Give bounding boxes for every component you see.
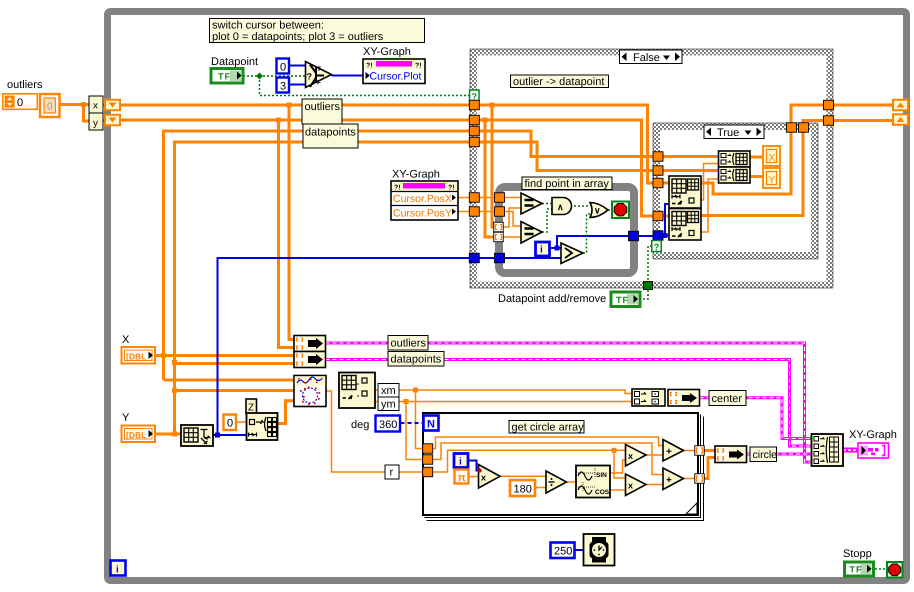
case structure False border — [470, 49, 833, 288]
wire T2 to build array B2 — [662, 169, 719, 172]
while loop condition terminal — [887, 562, 903, 578]
free label switch cursor — [210, 19, 425, 44]
i terminal for loop — [454, 454, 468, 468]
wire Y array net — [155, 433, 181, 436]
get circle array label — [509, 421, 584, 434]
outliers wire label — [302, 99, 342, 124]
svg-text:?: ? — [307, 72, 313, 82]
wire T3 to delete-from-array 1 — [656, 182, 669, 185]
wire 180 to divide — [535, 487, 546, 489]
unbundle x y node — [89, 96, 103, 130]
wire branch down to bundle input 1 — [289, 105, 294, 340]
wire delete2 array out to right shift register — [701, 121, 893, 216]
case structure True border — [653, 123, 818, 259]
Y array DBL control — [122, 426, 156, 443]
svg-text:get circle array: get circle array — [512, 422, 585, 434]
wire multiply0 out to divide — [500, 475, 546, 477]
svg-text:outlier -> datapoint: outlier -> datapoint — [513, 76, 604, 88]
svg-text:X: X — [769, 153, 776, 164]
divide node — [546, 471, 567, 493]
ym wire label — [378, 397, 399, 411]
svg-text:3: 3 — [280, 81, 286, 93]
outlier -> datapoint label — [511, 75, 609, 88]
svg-text:datapoints: datapoints — [391, 354, 442, 366]
svg-text:0: 0 — [17, 97, 23, 109]
250 constant — [551, 543, 575, 559]
svg-text:x: x — [93, 101, 98, 112]
X array DBL control — [122, 347, 156, 364]
svg-text:TF: TF — [850, 565, 863, 575]
svg-text:?!: ?! — [394, 185, 401, 192]
case selector terminal ? — [470, 90, 480, 102]
0 constant orange — [224, 415, 237, 431]
svg-text:X: X — [122, 334, 130, 346]
Stopp TF control — [845, 562, 874, 576]
svg-text:i: i — [116, 565, 119, 576]
wire autoindex I2 to equal 2 — [503, 236, 521, 238]
equal node 2 — [521, 222, 542, 244]
Datapoint add/remove TF — [611, 292, 640, 307]
wire ym inside for loop to add2 — [433, 443, 664, 475]
svg-text:XY-Graph: XY-Graph — [363, 46, 411, 58]
greater node — [561, 243, 583, 264]
wire R1 to circle bundle — [704, 449, 715, 452]
svg-text:XY-Graph: XY-Graph — [849, 429, 897, 441]
green diamond junction — [256, 73, 263, 80]
wire T1 to build array B1 — [662, 155, 719, 158]
svg-text:SIN: SIN — [596, 472, 607, 479]
svg-text:x: x — [481, 473, 486, 483]
wait ms node — [584, 534, 615, 566]
True case blue tunnel — [653, 231, 663, 241]
final build array node — [812, 434, 844, 466]
wire multiply2 out to add2 — [646, 484, 663, 486]
wire branch down to autoindex tunnel I1 — [492, 105, 495, 227]
gray loop tunnels G1 G2 — [495, 193, 505, 203]
wire cos out to multiply2 — [610, 489, 626, 491]
wire green dotted and to or — [574, 205, 590, 207]
svg-text:plot 0 = datapoints; plot 3 =: plot 0 = datapoints; plot 3 = outliers — [212, 31, 384, 43]
for loop left tunnels — [423, 444, 433, 454]
multiply node 1 — [626, 445, 647, 467]
wire branch down to autoindex tunnel I2 — [485, 120, 495, 237]
right shift register 1 — [893, 100, 908, 111]
svg-text:find point in array: find point in array — [525, 178, 610, 190]
center wire label — [709, 391, 746, 406]
wire X array net — [155, 354, 294, 357]
svg-text:switch cursor between:: switch cursor between: — [212, 20, 324, 32]
svg-text:Datapoint add/remove: Datapoint add/remove — [498, 293, 606, 305]
wire outliers control to unbundle — [60, 103, 89, 106]
wire ym — [375, 401, 632, 403]
svg-text:360: 360 — [379, 419, 397, 431]
wire outliers-x from left shift register to True case tunnel T3 — [120, 105, 662, 183]
svg-text:COS: COS — [595, 489, 610, 496]
True case left tunnels T1-T4 — [653, 152, 663, 162]
and node — [552, 198, 572, 215]
svg-text:outliers: outliers — [391, 338, 427, 350]
N terminal — [424, 416, 439, 431]
svg-text:xm: xm — [381, 385, 396, 397]
build array node B1 — [719, 151, 751, 167]
case tunnels PosX PosY — [469, 193, 479, 203]
wire blue to greater node — [504, 257, 561, 259]
svg-text:250: 250 — [554, 546, 572, 558]
svg-text:N: N — [427, 419, 435, 431]
wire blue 3 const to select — [289, 84, 309, 86]
wire xm — [375, 390, 632, 394]
wire add2 out to tunnel R2 — [683, 478, 695, 480]
wire magenta center cluster — [700, 398, 812, 439]
False case right tunnels — [824, 100, 834, 110]
svg-text:XY-Graph: XY-Graph — [392, 169, 440, 181]
svg-text:Z: Z — [248, 403, 254, 414]
wire delete1 array out to right shift register — [701, 105, 893, 194]
index & bundle node circle — [715, 446, 747, 463]
right shift register 2 — [893, 114, 908, 125]
r wire label — [385, 465, 399, 479]
svg-text:Cursor.Plot: Cursor.Plot — [370, 71, 422, 83]
svg-text:center: center — [712, 393, 743, 405]
svg-text:Y: Y — [769, 175, 776, 186]
wire blue array size net — [213, 434, 247, 436]
wire delete2 element out to B2 — [701, 179, 719, 232]
multiply node 2 — [626, 474, 647, 496]
svg-text:True: True — [717, 127, 739, 139]
for loop get circle array border — [423, 413, 704, 521]
Datapoint TF control — [211, 69, 243, 84]
wire 0 constant to init-array — [236, 421, 247, 423]
svg-text:?!: ?! — [415, 63, 422, 70]
initialize array node — [247, 413, 278, 440]
wire green dotted equal1 to and — [542, 203, 552, 205]
add node 1 — [663, 440, 684, 462]
svg-text:[DBL: [DBL — [126, 352, 146, 362]
svg-text:i: i — [459, 457, 462, 468]
svg-text:y: y — [93, 118, 98, 129]
wire B2 out to Y indicator — [750, 175, 763, 178]
wire R2 to circle bundle — [704, 458, 715, 479]
svg-text:TF: TF — [616, 295, 629, 305]
wire magenta outliers cluster to final build array — [326, 343, 812, 462]
wire blue i to greater — [549, 247, 561, 249]
outliers lower wire label — [388, 336, 428, 351]
svg-text:+: + — [666, 447, 672, 458]
red coercion dot — [478, 469, 482, 473]
equal node 1 — [521, 193, 542, 214]
wire add1 out to tunnel R1 — [683, 450, 695, 452]
wire green dotted Stopp TF to loop condition — [875, 568, 887, 570]
wire blue i to multiply0 — [468, 461, 479, 471]
gray loop blue tunnels — [495, 253, 505, 263]
svg-text:+: + — [666, 475, 672, 486]
left shift register 1 — [105, 100, 120, 111]
svg-text:?!: ?! — [366, 63, 373, 70]
svg-text:datapoints: datapoints — [305, 127, 356, 139]
wire B1 out to X indicator — [750, 156, 763, 159]
wire T4 to delete-from-array 2 — [656, 215, 669, 218]
Y indicator — [763, 168, 780, 188]
for loop right autoindex tunnels — [695, 446, 705, 456]
svg-text:π: π — [458, 472, 467, 484]
left shift register 2 — [105, 115, 120, 126]
wire Cursor.PosY to equal node — [458, 212, 521, 227]
svg-text:i: i — [540, 245, 543, 256]
case blue tunnel — [469, 253, 479, 263]
unbundle center cluster node — [339, 373, 375, 409]
svg-text:∧: ∧ — [557, 202, 564, 212]
select node — [306, 62, 332, 88]
True case selector terminal ? — [652, 241, 662, 253]
wire autoindex I1 to equal 1 — [503, 208, 521, 227]
svg-text:0: 0 — [227, 418, 233, 430]
datapoints lower wire label — [388, 352, 444, 367]
wire green dotted Datapoint to select and case selector — [243, 75, 309, 77]
or node — [590, 203, 608, 218]
datapoints wire label — [303, 124, 358, 148]
fit circle VI — [294, 376, 326, 407]
wire outliers-y from left shift register to True case tunnel T4 — [120, 120, 662, 216]
build array node B2 — [719, 167, 751, 183]
find point in array label — [522, 177, 612, 190]
svg-text:False: False — [633, 52, 660, 64]
array size node — [181, 425, 213, 446]
svg-text:?!: ?! — [448, 185, 455, 192]
True case selector — [704, 125, 764, 139]
180 constant — [510, 480, 535, 496]
wire pi to multiply — [469, 476, 479, 478]
svg-text:[DBL: [DBL — [126, 430, 146, 440]
wire sin out to multiply1 — [610, 460, 626, 473]
svg-text:180: 180 — [514, 484, 532, 496]
wire fit-circle r output — [326, 391, 423, 472]
svg-text:F: F — [317, 80, 321, 87]
svg-text:x: x — [628, 451, 633, 461]
delete from array node 1 — [669, 176, 701, 208]
find point in array while loop border — [499, 187, 634, 273]
XY-Graph terminal — [858, 443, 889, 458]
svg-text:x: x — [628, 481, 633, 491]
wire blue select out to property node — [332, 75, 364, 77]
svg-text:outliers: outliers — [305, 101, 341, 113]
360 constant — [376, 416, 401, 432]
svg-text:TF: TF — [218, 72, 231, 82]
i terminal gray loop — [536, 242, 550, 256]
svg-text:Datapoint: Datapoint — [211, 56, 258, 68]
sincos node — [576, 466, 610, 498]
i iteration terminal while loop — [111, 561, 126, 576]
svg-text:Cursor.PosX: Cursor.PosX — [393, 193, 452, 205]
stop terminal in gray loop — [612, 202, 629, 219]
3 constant — [277, 78, 290, 93]
svg-text:Stopp: Stopp — [843, 548, 872, 560]
property node Cursor.Plot — [363, 59, 425, 84]
delete from array node 2 — [669, 209, 701, 241]
wire multiply1 out to add1 — [646, 454, 663, 456]
svg-text:0: 0 — [280, 62, 286, 74]
add node 2 — [663, 468, 684, 490]
outliers array control — [3, 94, 60, 117]
index & bundle node center — [668, 390, 700, 407]
svg-text:0: 0 — [47, 102, 53, 113]
wire xm inside for loop to add1 — [433, 437, 664, 449]
svg-text:T: T — [317, 66, 321, 73]
False case selector — [620, 50, 683, 64]
wire init-array out to fit-circle — [278, 401, 295, 424]
svg-text:r: r — [390, 467, 394, 479]
svg-text:outliers: outliers — [7, 79, 43, 91]
svg-text:circle: circle — [753, 449, 778, 461]
True case top tunnels A B — [787, 123, 797, 133]
0 constant — [277, 59, 290, 74]
wire Cursor.PosX to equal node — [458, 197, 521, 199]
svg-text:ym: ym — [381, 399, 396, 411]
index & bundle cluster array node (datapoints) — [294, 352, 326, 368]
xm wire label — [378, 384, 399, 398]
gray loop autoindex tunnels — [494, 222, 504, 232]
build array node center — [632, 389, 665, 406]
wire magenta circle cluster — [747, 453, 811, 456]
svg-text:Y: Y — [122, 412, 130, 424]
wire delete1 element out to B1 — [701, 164, 719, 201]
wire magenta datapoints cluster to final build array — [326, 360, 812, 447]
wire magenta plot array to XY-Graph terminal — [843, 448, 858, 453]
svg-text:∨: ∨ — [594, 206, 601, 216]
case left tunnels P1-P4 — [469, 100, 479, 110]
wire blue dashed 360 to N — [401, 422, 424, 424]
pi constant — [455, 470, 469, 485]
wire divide out to sincos — [567, 481, 577, 483]
wire green dotted equal2 to and — [542, 209, 552, 232]
wire green dotted inner case selector to Datapoint add/remove TF — [640, 246, 652, 299]
wire blue 0 const to select — [289, 65, 309, 67]
svg-text:deg: deg — [351, 419, 369, 431]
Z label — [246, 399, 257, 414]
wire r inside for loop to multiplies — [433, 450, 626, 472]
wire green dotted greater to or — [583, 214, 590, 253]
wire branch down to bundle input 2 — [279, 120, 295, 348]
wire blue 250 to wait — [575, 549, 583, 551]
circle wire label — [750, 447, 777, 462]
X indicator — [763, 146, 780, 166]
green tunnel on case bottom border — [644, 282, 653, 290]
multiply node 0 — [477, 465, 500, 489]
wire green dotted or to stop terminal — [608, 209, 612, 211]
svg-text:Cursor.PosY: Cursor.PosY — [393, 208, 452, 220]
wire blue i out of loop into True case — [557, 236, 662, 248]
property node Cursor.PosX / Cursor.PosY — [391, 181, 458, 220]
index & bundle cluster array node (outliers) — [294, 336, 326, 352]
